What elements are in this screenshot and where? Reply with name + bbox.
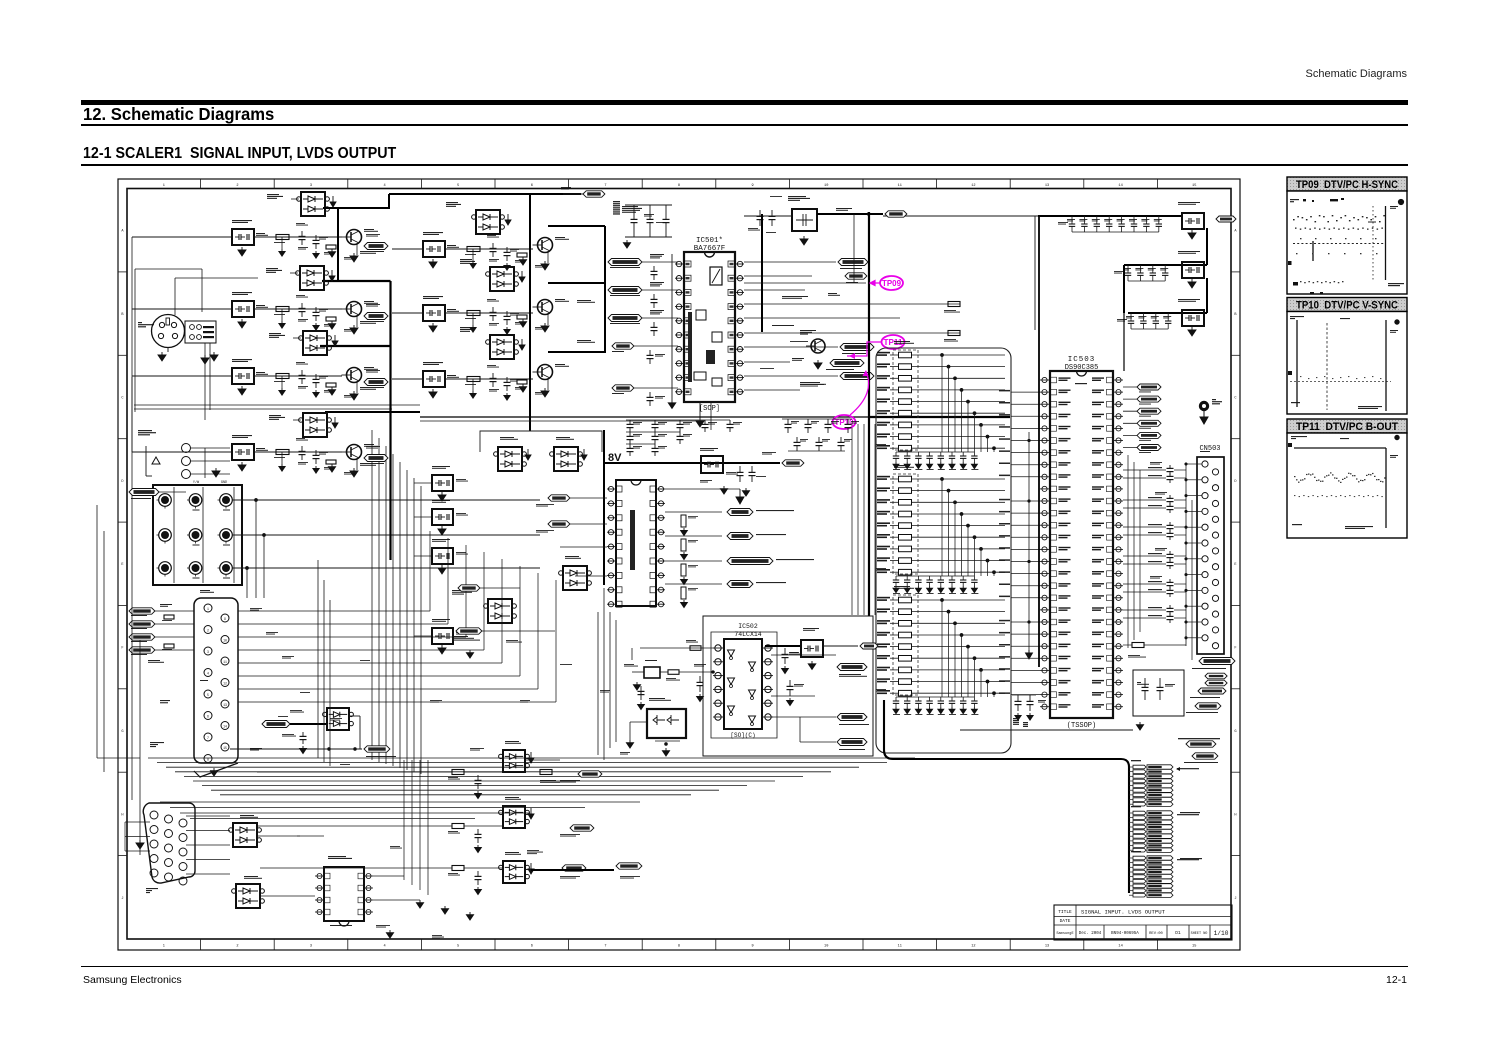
svg-text:Dec. 2004: Dec. 2004: [1079, 932, 1102, 936]
svg-text:7: 7: [604, 945, 606, 949]
svg-text:TP10 DTV/PC V-SYNC: TP10 DTV/PC V-SYNC: [1296, 300, 1398, 312]
svg-text:8: 8: [678, 184, 680, 188]
svg-text:5: 5: [207, 693, 209, 697]
svg-text:G: G: [121, 730, 123, 734]
svg-text:10: 10: [824, 945, 828, 949]
svg-text:1: 1: [163, 184, 165, 188]
svg-text:9: 9: [224, 617, 226, 621]
svg-text:6: 6: [531, 945, 533, 949]
svg-text:13: 13: [223, 703, 227, 707]
svg-text:B: B: [121, 313, 124, 317]
svg-text:H: H: [121, 813, 123, 817]
svg-text:10: 10: [223, 639, 227, 643]
svg-text:6: 6: [207, 715, 209, 719]
svg-text:13: 13: [1045, 945, 1049, 949]
svg-text:A: A: [1234, 230, 1237, 234]
svg-text:SIGNAL INPUT. LVDS OUTPUT: SIGNAL INPUT. LVDS OUTPUT: [1081, 909, 1166, 916]
svg-text:D1: D1: [1175, 930, 1181, 936]
svg-text:12: 12: [971, 945, 975, 949]
svg-text:4: 4: [384, 945, 386, 949]
svg-text:C: C: [121, 397, 123, 401]
svg-text:F: F: [121, 647, 123, 651]
svg-text:GND: GND: [221, 481, 227, 485]
svg-text:15: 15: [1192, 184, 1196, 188]
svg-text:SHEET NO: SHEET NO: [1191, 932, 1208, 936]
svg-text:E: E: [121, 563, 123, 567]
svg-text:1/10: 1/10: [1214, 930, 1229, 937]
svg-text:IC502: IC502: [738, 623, 758, 630]
svg-text:DATE: DATE: [1060, 918, 1071, 924]
svg-text:IC501*: IC501*: [696, 237, 723, 245]
svg-text:REV:00: REV:00: [1149, 932, 1163, 936]
svg-text:5: 5: [457, 945, 459, 949]
svg-text:J: J: [121, 897, 123, 901]
svg-text:H: H: [1234, 813, 1236, 817]
svg-text:74LCX14: 74LCX14: [734, 631, 761, 638]
svg-text:1: 1: [163, 945, 165, 949]
svg-text:SamsungE: SamsungE: [1056, 932, 1073, 936]
svg-text:D: D: [121, 480, 123, 484]
svg-text:14: 14: [1118, 945, 1122, 949]
svg-text:E: E: [1234, 563, 1236, 567]
svg-text:2: 2: [236, 184, 238, 188]
svg-text:7: 7: [604, 184, 606, 188]
svg-text:TP10: TP10: [835, 417, 854, 427]
svg-text:9: 9: [752, 945, 754, 949]
svg-text:(TSSOP): (TSSOP): [1067, 722, 1096, 730]
svg-text:3: 3: [310, 184, 312, 188]
svg-text:14: 14: [223, 725, 227, 729]
svg-text:14: 14: [1118, 184, 1122, 188]
svg-text:2: 2: [207, 629, 209, 633]
svg-text:13: 13: [1045, 184, 1049, 188]
svg-text:DS90C385: DS90C385: [1065, 364, 1099, 372]
svg-text:10: 10: [824, 184, 828, 188]
svg-text:[SOP]: [SOP]: [699, 405, 720, 413]
svg-text:F: F: [1234, 647, 1236, 651]
svg-text:TP11 DTV/PC B-OUT: TP11 DTV/PC B-OUT: [1296, 421, 1398, 433]
svg-text:4: 4: [384, 184, 386, 188]
svg-text:J: J: [1234, 897, 1236, 901]
svg-text:11: 11: [898, 945, 902, 949]
svg-text:11: 11: [223, 660, 227, 664]
svg-text:Y/W: Y/W: [193, 480, 200, 485]
svg-text:3: 3: [310, 945, 312, 949]
svg-text:2: 2: [236, 945, 238, 949]
svg-text:1: 1: [207, 607, 209, 611]
svg-text:TP09: TP09: [882, 278, 901, 288]
svg-text:D: D: [1234, 480, 1236, 484]
svg-text:B: B: [1234, 313, 1237, 317]
svg-text:G: G: [1234, 730, 1236, 734]
svg-text:9: 9: [752, 184, 754, 188]
svg-text:12: 12: [223, 682, 227, 686]
svg-text:TITLE: TITLE: [1058, 909, 1072, 915]
svg-text:11: 11: [898, 184, 902, 188]
svg-text:15: 15: [1192, 945, 1196, 949]
svg-text:3: 3: [207, 650, 209, 654]
svg-text:A: A: [121, 230, 124, 234]
svg-text:C: C: [1234, 397, 1236, 401]
svg-text:TP09 DTV/PC H-SYNC: TP09 DTV/PC H-SYNC: [1296, 179, 1398, 191]
svg-text:5: 5: [457, 184, 459, 188]
svg-text:6: 6: [531, 184, 533, 188]
svg-text:12: 12: [971, 184, 975, 188]
svg-text:IC503: IC503: [1068, 356, 1096, 364]
svg-text:[SO](C): [SO](C): [730, 732, 755, 739]
svg-text:BA7667F: BA7667F: [694, 245, 726, 253]
svg-text:4: 4: [207, 672, 209, 676]
svg-text:7: 7: [207, 736, 209, 740]
svg-text:15: 15: [223, 746, 227, 750]
svg-text:8: 8: [678, 945, 680, 949]
svg-text:BN94-00695A: BN94-00695A: [1111, 932, 1139, 936]
